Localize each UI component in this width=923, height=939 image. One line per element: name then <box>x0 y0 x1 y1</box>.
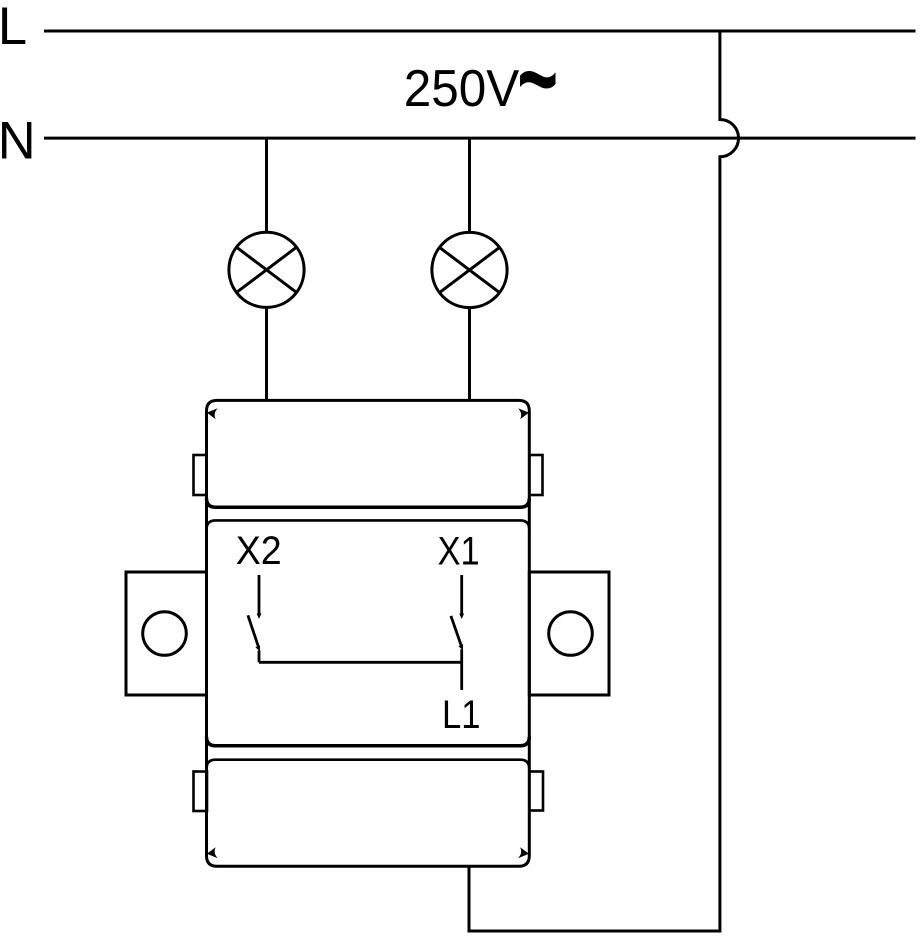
corner seam arrow bottom-right <box>518 847 529 858</box>
wire N to lamp E1 <box>265 138 268 232</box>
wire N line <box>44 137 916 140</box>
switch lever X2 <box>248 615 259 646</box>
corner seam arrow top-left <box>207 408 218 419</box>
switch lever X2 arrow tip <box>255 646 260 652</box>
switch body outline <box>207 400 530 866</box>
wire N to lamp E2 <box>468 138 471 232</box>
wire L line <box>44 30 916 33</box>
svg-text:N: N <box>0 111 36 170</box>
switch claw tab bottom-right <box>529 772 543 811</box>
lamp E2 <box>432 232 507 307</box>
switch body divider: top edge of middle section <box>207 520 530 529</box>
switch body divider: top edge of bottom section <box>207 760 530 769</box>
switch claw tab top-left <box>194 455 207 495</box>
terminal X2 lead <box>258 575 261 615</box>
switch body divider: bottom edge of middle section <box>207 737 530 746</box>
wire lamp E1 to switch body <box>265 307 268 400</box>
switch claw tab bottom-left <box>194 772 208 812</box>
switch mounting ear right <box>529 572 609 695</box>
switch claw tab top-right <box>529 455 542 495</box>
svg-text:~: ~ <box>517 18 558 139</box>
wire link between poles <box>259 661 462 664</box>
corner seam arrow top-right <box>518 408 529 419</box>
wire L1 pole down <box>460 649 463 690</box>
svg-text:L1: L1 <box>442 693 481 737</box>
switch lever X1 arrow tip <box>458 644 463 650</box>
svg-text:X2: X2 <box>236 529 282 573</box>
switch mounting ear left <box>126 572 207 695</box>
wire lamp E2 to switch body <box>468 308 471 401</box>
terminal X2 arrow tip <box>257 614 262 620</box>
switch body divider: bottom edge of rocker section <box>207 498 530 507</box>
svg-text:X1: X1 <box>438 529 480 573</box>
svg-text:250V: 250V <box>404 60 520 118</box>
terminal X1 lead <box>460 575 463 615</box>
lamp E1 <box>229 232 304 307</box>
svg-text:L: L <box>0 0 27 56</box>
switch lever X1 <box>451 616 462 646</box>
wire right vertical drop from L with hop over N <box>469 31 739 931</box>
corner seam arrow bottom-left <box>207 847 218 858</box>
terminal X1 arrow tip <box>459 614 464 620</box>
wire X2 pole down <box>258 651 261 663</box>
